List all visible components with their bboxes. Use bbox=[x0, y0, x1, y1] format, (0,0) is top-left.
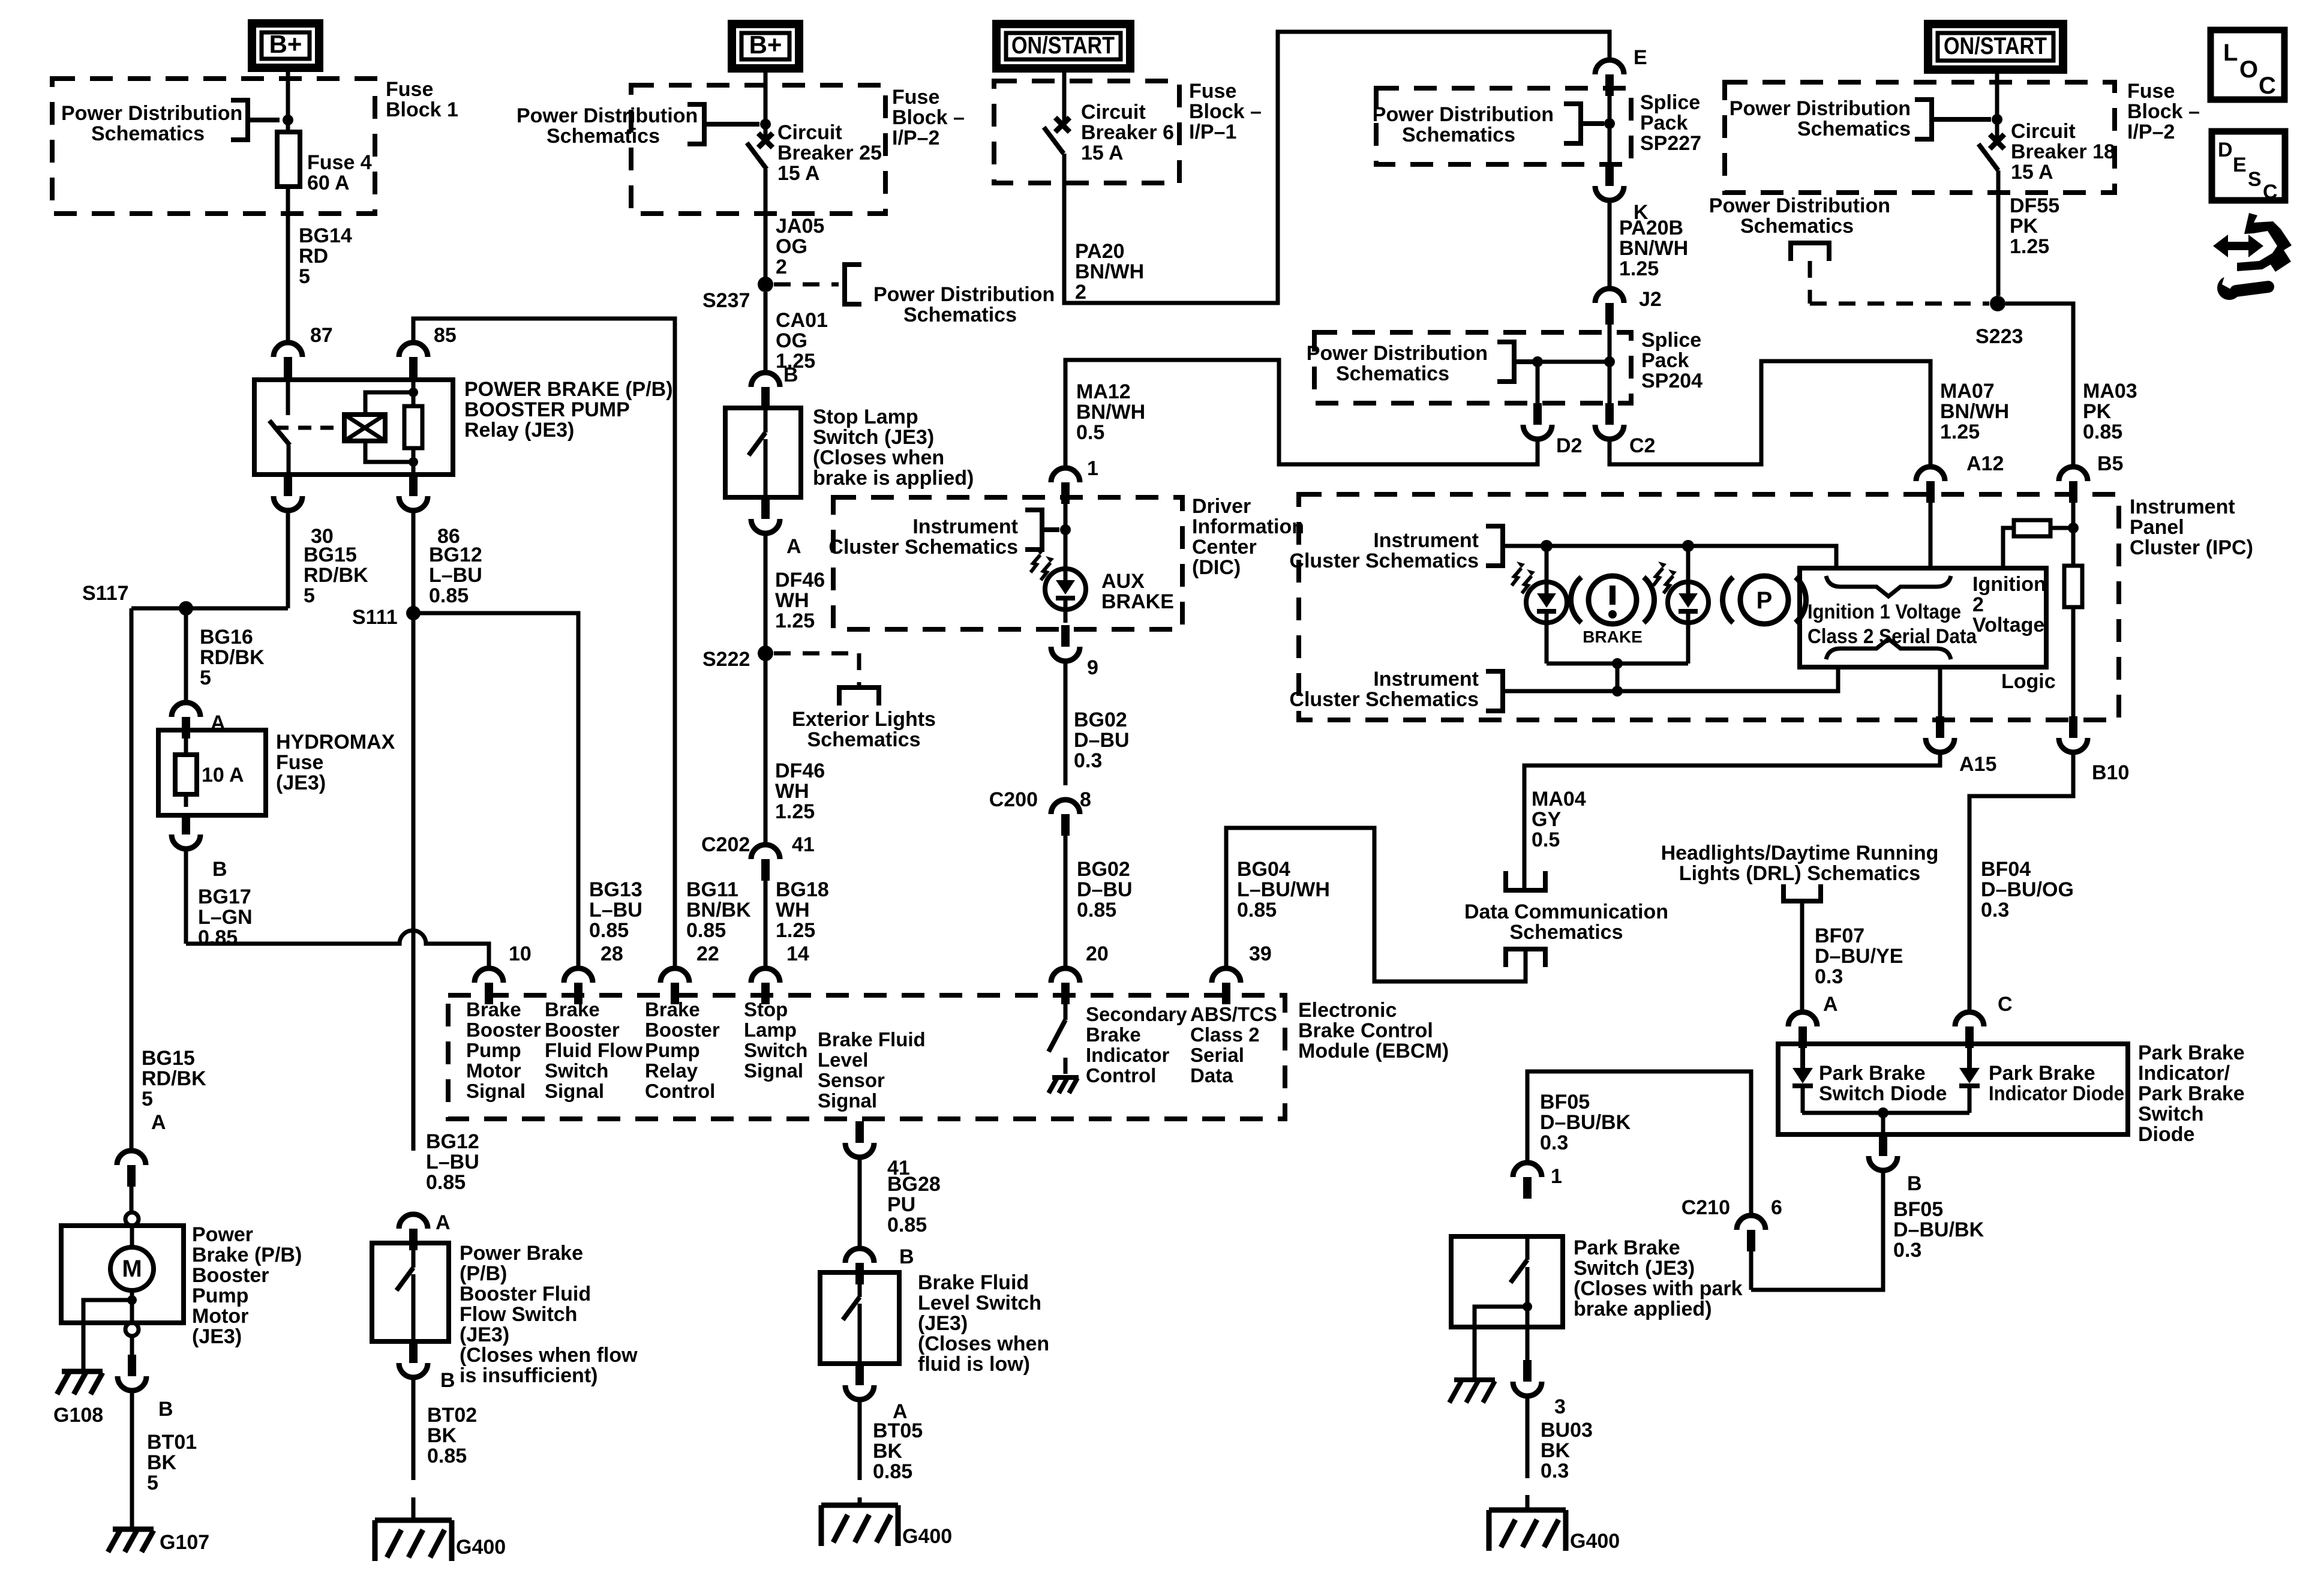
park brake switch internal ground bbox=[1454, 1377, 1495, 1382]
svg-text:BF05: BF05 bbox=[1540, 1091, 1590, 1113]
svg-text:6: 6 bbox=[1771, 1196, 1782, 1219]
svg-text:D2: D2 bbox=[1556, 434, 1582, 457]
wire BG17 to EBCM pin 10 with hop over BG12 bbox=[184, 849, 188, 944]
svg-text:5: 5 bbox=[200, 667, 211, 689]
connector D2 below SP204 bbox=[1523, 425, 1552, 439]
svg-text:0.5: 0.5 bbox=[1532, 828, 1560, 851]
connector pin 22 of EBCM bbox=[660, 968, 689, 983]
relay K1 POWER BRAKE BOOSTER PUMP Relay (JE3) bbox=[254, 380, 453, 475]
svg-text:1.25: 1.25 bbox=[1619, 257, 1659, 280]
wire B of diode box down to C210 junction bbox=[1751, 1170, 1883, 1290]
wire S111 to EBCM pin 28 (BG13) bbox=[413, 613, 578, 968]
svg-text:1.25: 1.25 bbox=[1940, 421, 1980, 443]
wire BG04 from pin 39 to Data Communication Schematics bbox=[1226, 828, 1526, 981]
svg-text:C: C bbox=[1998, 993, 2013, 1016]
svg-text:Brake: Brake bbox=[466, 998, 521, 1020]
svg-text:Motor: Motor bbox=[192, 1305, 248, 1328]
svg-text:Driver: Driver bbox=[1192, 495, 1251, 518]
dashed box Fuse Block 1 bbox=[52, 79, 375, 214]
svg-text:Schematics: Schematics bbox=[1510, 921, 1623, 944]
svg-text:Switch (JE3): Switch (JE3) bbox=[1574, 1257, 1695, 1280]
svg-text:(JE3): (JE3) bbox=[918, 1312, 968, 1335]
svg-text:A: A bbox=[786, 535, 801, 558]
svg-text:(Closes when: (Closes when bbox=[918, 1332, 1049, 1355]
svg-text:Block –: Block – bbox=[892, 106, 965, 129]
svg-text:D–BU: D–BU bbox=[1074, 729, 1130, 752]
svg-text:1.25: 1.25 bbox=[2010, 235, 2049, 258]
svg-text:Fuse 4: Fuse 4 bbox=[307, 151, 372, 174]
svg-text:BK: BK bbox=[147, 1451, 177, 1474]
svg-text:39: 39 bbox=[1249, 942, 1272, 965]
connector K below SP227 bbox=[1595, 186, 1624, 200]
connector pin 30 of relay bbox=[274, 496, 302, 511]
wire DF55 to S223 bbox=[1996, 170, 2001, 296]
svg-text:Motor: Motor bbox=[466, 1059, 521, 1082]
svg-text:5: 5 bbox=[147, 1472, 158, 1494]
connector J2 of splice pack SP204 bbox=[1595, 289, 1624, 303]
wire logic to A15 bbox=[1938, 667, 1942, 718]
svg-text:Pump: Pump bbox=[466, 1039, 521, 1061]
svg-text:Park Brake: Park Brake bbox=[1574, 1236, 1680, 1259]
svg-text:BK: BK bbox=[873, 1440, 903, 1463]
brace class 2 serial data bbox=[1826, 639, 1951, 659]
svg-text:C2: C2 bbox=[1629, 434, 1655, 457]
power symbol ON/START (Fuse Block I/P-2 right) bbox=[1928, 24, 2063, 70]
svg-text:Signal: Signal bbox=[545, 1080, 604, 1102]
wire ON/START to breaker 6 bbox=[1062, 68, 1067, 122]
svg-text:Power Distribution: Power Distribution bbox=[1730, 97, 1911, 120]
svg-text:(Closes when flow: (Closes when flow bbox=[460, 1344, 638, 1367]
svg-text:BN/BK: BN/BK bbox=[686, 899, 751, 921]
svg-text:Fuse: Fuse bbox=[2127, 80, 2175, 103]
svg-text:Switch Diode: Switch Diode bbox=[1819, 1082, 1947, 1105]
switch S2 Stop Lamp Switch (JE3) bbox=[725, 408, 801, 497]
wire BT05 to ground G400 with break bbox=[858, 1400, 862, 1480]
svg-text:G400: G400 bbox=[456, 1536, 506, 1559]
svg-text:Switch (JE3): Switch (JE3) bbox=[813, 426, 934, 449]
svg-text:BT01: BT01 bbox=[147, 1431, 197, 1454]
svg-text:0.3: 0.3 bbox=[1981, 899, 2009, 921]
svg-text:Headlights/Daytime Running: Headlights/Daytime Running bbox=[1661, 842, 1939, 864]
connector pin 41 of EBCM (brake fluid level sensor signal) bbox=[845, 1143, 874, 1157]
svg-text:Cluster (IPC): Cluster (IPC) bbox=[2130, 536, 2253, 559]
diode D2 park brake indicator diode bbox=[1967, 1048, 1972, 1068]
svg-text:B: B bbox=[899, 1245, 914, 1268]
connector B of booster fluid flow switch bbox=[399, 1363, 428, 1377]
svg-text:Brake Control: Brake Control bbox=[1298, 1019, 1433, 1042]
power symbol B+ (Fuse Block I/P-2) bbox=[732, 24, 799, 68]
svg-text:C: C bbox=[2263, 181, 2278, 203]
indicator symbol P (park) bbox=[1740, 576, 1788, 624]
svg-text:ABS/TCS: ABS/TCS bbox=[1190, 1003, 1277, 1025]
svg-text:Fuse: Fuse bbox=[386, 78, 433, 101]
wire D2 to MA12 jog bbox=[1065, 360, 1538, 468]
svg-text:Center: Center bbox=[1192, 536, 1257, 559]
svg-text:JA05: JA05 bbox=[776, 215, 824, 238]
svg-text:Booster: Booster bbox=[545, 1019, 620, 1041]
diode box Park Brake Indicator / Park Brake Switch Diode bbox=[1778, 1044, 2128, 1134]
DIC internal wire to AUX BRAKE LED bbox=[1064, 504, 1068, 569]
svg-text:Control: Control bbox=[645, 1080, 715, 1102]
dashed box Instrument Panel Cluster (IPC) bbox=[1299, 494, 2119, 720]
wire PA20 from CB6 east to splice pack column bbox=[1064, 32, 1610, 303]
svg-text:GY: GY bbox=[1532, 808, 1561, 831]
svg-text:BK: BK bbox=[1541, 1439, 1571, 1462]
splice S117 bbox=[179, 601, 193, 616]
svg-text:Brake (P/B): Brake (P/B) bbox=[192, 1244, 302, 1266]
svg-text:Instrument: Instrument bbox=[1373, 529, 1479, 552]
svg-text:10: 10 bbox=[509, 942, 532, 965]
connector pin 20 of EBCM (secondary brake indicator control) bbox=[1051, 968, 1080, 983]
svg-text:BG02: BG02 bbox=[1074, 709, 1127, 731]
svg-text:(Closes with park: (Closes with park bbox=[1574, 1277, 1743, 1300]
svg-text:L: L bbox=[2223, 40, 2238, 66]
svg-text:Stop Lamp: Stop Lamp bbox=[813, 406, 918, 428]
svg-text:BOOSTER PUMP: BOOSTER PUMP bbox=[464, 398, 630, 421]
svg-text:0.3: 0.3 bbox=[1893, 1239, 1921, 1262]
svg-text:Circuit: Circuit bbox=[1081, 101, 1146, 124]
HYDROMAX Fuse (JE3) box bbox=[158, 730, 266, 815]
svg-text:9: 9 bbox=[1087, 656, 1098, 679]
svg-text:Brake: Brake bbox=[645, 998, 700, 1020]
connector pin 87 of relay bbox=[274, 343, 302, 357]
svg-text:Power Distribution: Power Distribution bbox=[61, 102, 242, 125]
wire S117 down to HYDROMAX fuse bbox=[184, 608, 188, 703]
dashed box Fuse Block I/P-2 (right) bbox=[1725, 82, 2115, 193]
svg-text:Pack: Pack bbox=[1640, 112, 1688, 134]
splice S237 bbox=[758, 277, 773, 292]
svg-text:Park Brake: Park Brake bbox=[2138, 1082, 2245, 1105]
connector B of stop lamp switch bbox=[751, 373, 780, 387]
svg-text:Secondary: Secondary bbox=[1086, 1003, 1187, 1025]
svg-text:DF46: DF46 bbox=[775, 760, 825, 782]
wire BT01 to ground G107 bbox=[130, 1391, 134, 1529]
ground G400 (park brake switch) bbox=[1489, 1508, 1566, 1513]
svg-text:SP227: SP227 bbox=[1640, 132, 1701, 155]
svg-text:Power: Power bbox=[192, 1223, 253, 1246]
svg-text:Schematics: Schematics bbox=[1402, 124, 1515, 146]
connector pin 10 of EBCM bbox=[475, 968, 503, 983]
wire CB25 to S237 bbox=[764, 169, 768, 277]
splice S222 bbox=[758, 646, 773, 661]
svg-text:D–BU/OG: D–BU/OG bbox=[1981, 878, 2074, 901]
connector pin 14 of EBCM bbox=[751, 968, 780, 983]
svg-text:Power Brake: Power Brake bbox=[460, 1242, 583, 1265]
svg-text:Brake Fluid: Brake Fluid bbox=[818, 1028, 926, 1050]
reference Data Communication Schematics bbox=[1506, 949, 1545, 967]
svg-text:brake is applied): brake is applied) bbox=[813, 467, 974, 490]
connector A of stop lamp switch bbox=[751, 519, 780, 533]
svg-text:BN/WH: BN/WH bbox=[1619, 237, 1688, 260]
wire BG28 to level switch bbox=[858, 1157, 862, 1248]
svg-text:22: 22 bbox=[696, 942, 719, 965]
junction on CB18 feed bbox=[1992, 114, 2002, 125]
svg-text:0.85: 0.85 bbox=[427, 1445, 467, 1467]
svg-text:Splice: Splice bbox=[1641, 329, 1701, 352]
svg-text:PA20: PA20 bbox=[1075, 240, 1125, 263]
icon wrench bbox=[2217, 276, 2241, 300]
svg-text:A: A bbox=[1823, 993, 1838, 1016]
svg-text:RD/BK: RD/BK bbox=[200, 646, 265, 669]
svg-text:RD/BK: RD/BK bbox=[142, 1067, 206, 1090]
svg-text:28: 28 bbox=[600, 942, 623, 965]
svg-text:BG12: BG12 bbox=[429, 544, 482, 566]
svg-text:BN/WH: BN/WH bbox=[1076, 401, 1145, 424]
svg-text:Power Distribution: Power Distribution bbox=[1307, 342, 1488, 365]
switch S4 Power Brake Booster Fluid Flow Switch (JE3) bbox=[372, 1243, 449, 1341]
IPC top rail bbox=[1505, 546, 1836, 568]
connector A of HYDROMAX fuse bbox=[172, 703, 200, 717]
svg-text:Power Distribution: Power Distribution bbox=[1709, 194, 1890, 217]
svg-text:Relay: Relay bbox=[645, 1059, 698, 1082]
connector 1 of DIC bbox=[1051, 468, 1080, 482]
svg-text:(JE3): (JE3) bbox=[460, 1323, 509, 1346]
svg-text:A12: A12 bbox=[1966, 452, 2004, 475]
svg-text:Schematics: Schematics bbox=[1336, 362, 1449, 385]
svg-text:Electronic: Electronic bbox=[1298, 999, 1397, 1022]
svg-text:0.3: 0.3 bbox=[1815, 965, 1843, 988]
connector pin 85 of relay bbox=[399, 343, 428, 357]
icon DESC box bbox=[2212, 131, 2285, 200]
svg-text:Flow Switch: Flow Switch bbox=[460, 1303, 577, 1326]
svg-text:1.25: 1.25 bbox=[775, 610, 815, 632]
wire BF05 from park brake switch to C210 bbox=[1527, 1071, 1751, 1215]
svg-text:0.3: 0.3 bbox=[1541, 1460, 1569, 1482]
svg-text:S222: S222 bbox=[702, 648, 750, 671]
svg-text:20: 20 bbox=[1086, 942, 1109, 965]
relay actuation dashed link bbox=[298, 426, 336, 430]
connector B below diode box bbox=[1869, 1156, 1897, 1170]
module EBCM dashed box bbox=[448, 995, 1285, 1119]
svg-text:BF05: BF05 bbox=[1893, 1198, 1943, 1221]
svg-text:BG04: BG04 bbox=[1237, 858, 1290, 881]
connector B5 of IPC bbox=[2059, 467, 2088, 481]
svg-text:Cluster Schematics: Cluster Schematics bbox=[828, 536, 1018, 559]
svg-text:BF04: BF04 bbox=[1981, 858, 2031, 881]
svg-text:Fuse: Fuse bbox=[892, 86, 939, 109]
svg-text:41: 41 bbox=[792, 833, 815, 856]
svg-text:B+: B+ bbox=[269, 30, 302, 58]
svg-text:2: 2 bbox=[1972, 593, 1984, 616]
svg-text:L–GN: L–GN bbox=[198, 906, 253, 929]
svg-text:0.85: 0.85 bbox=[873, 1460, 912, 1483]
svg-text:Brake Fluid: Brake Fluid bbox=[918, 1271, 1029, 1294]
connector B of pump motor bbox=[130, 1336, 134, 1355]
svg-text:Module (EBCM): Module (EBCM) bbox=[1298, 1040, 1449, 1062]
svg-text:Block –: Block – bbox=[2127, 100, 2200, 123]
ground G107 bbox=[113, 1527, 154, 1532]
svg-text:Power Distribution: Power Distribution bbox=[1373, 103, 1554, 126]
svg-text:BG12: BG12 bbox=[426, 1130, 479, 1153]
brace ignition voltage inputs bbox=[1826, 576, 1951, 596]
svg-text:1: 1 bbox=[1087, 457, 1098, 480]
IPC LED bottom rail bbox=[1545, 623, 1549, 664]
svg-text:Power Distribution: Power Distribution bbox=[873, 283, 1055, 306]
svg-text:Signal: Signal bbox=[744, 1059, 803, 1082]
svg-text:0.85: 0.85 bbox=[686, 919, 726, 942]
diode box output junction bbox=[1802, 1111, 1969, 1115]
svg-text:0.85: 0.85 bbox=[429, 584, 469, 607]
svg-text:G400: G400 bbox=[902, 1525, 952, 1548]
svg-text:Breaker 25: Breaker 25 bbox=[777, 142, 882, 164]
svg-text:MA12: MA12 bbox=[1076, 380, 1131, 403]
svg-text:Data Communication: Data Communication bbox=[1464, 900, 1668, 923]
svg-text:S111: S111 bbox=[352, 606, 398, 629]
svg-text:fluid is low): fluid is low) bbox=[918, 1353, 1030, 1376]
svg-text:BG14: BG14 bbox=[299, 224, 352, 247]
svg-text:A: A bbox=[151, 1111, 166, 1134]
svg-text:DF55: DF55 bbox=[2010, 194, 2059, 217]
svg-text:Signal: Signal bbox=[818, 1089, 877, 1112]
svg-text:Level Switch: Level Switch bbox=[918, 1292, 1041, 1314]
svg-text:D–BU: D–BU bbox=[1077, 878, 1133, 901]
svg-text:Brake: Brake bbox=[545, 998, 600, 1020]
svg-text:Information: Information bbox=[1192, 515, 1304, 538]
svg-text:Lamp: Lamp bbox=[744, 1019, 797, 1041]
IPC bottom rail bbox=[1505, 667, 1838, 691]
svg-text:Schematics: Schematics bbox=[903, 304, 1017, 326]
svg-text:Fuse: Fuse bbox=[1189, 80, 1236, 103]
connector 9 below DIC bbox=[1064, 610, 1068, 623]
svg-text:(P/B): (P/B) bbox=[460, 1262, 507, 1285]
icon navigation double arrow bbox=[2213, 235, 2263, 257]
switch S5 Park Brake Switch (JE3) bbox=[1451, 1236, 1563, 1327]
svg-text:G108: G108 bbox=[53, 1404, 103, 1427]
svg-text:BG02: BG02 bbox=[1077, 858, 1130, 881]
EBCM internal driver switch and ground for pin 20 bbox=[1064, 998, 1068, 1020]
svg-text:0.5: 0.5 bbox=[1076, 421, 1104, 444]
svg-text:Pump: Pump bbox=[192, 1284, 248, 1307]
svg-text:14: 14 bbox=[786, 942, 809, 965]
svg-text:M: M bbox=[122, 1256, 142, 1282]
svg-text:BK: BK bbox=[427, 1424, 457, 1447]
svg-text:S223: S223 bbox=[1975, 325, 2023, 348]
svg-text:Fuse: Fuse bbox=[276, 751, 323, 774]
svg-text:B: B bbox=[1907, 1172, 1922, 1195]
svg-text:B+: B+ bbox=[749, 31, 782, 59]
connector A of diode box bbox=[1788, 1012, 1817, 1026]
icon LOC box bbox=[2211, 30, 2284, 100]
svg-text:Level: Level bbox=[818, 1049, 868, 1071]
svg-text:OG: OG bbox=[776, 235, 807, 258]
svg-text:BG18: BG18 bbox=[776, 878, 829, 901]
svg-text:Block 1: Block 1 bbox=[386, 98, 458, 121]
svg-text:PU: PU bbox=[887, 1193, 915, 1216]
svg-text:BG13: BG13 bbox=[589, 878, 642, 901]
wire S223 to IPC B5 (MA03) bbox=[2005, 304, 2073, 468]
svg-text:1: 1 bbox=[1551, 1165, 1562, 1188]
svg-text:HYDROMAX: HYDROMAX bbox=[276, 731, 395, 754]
svg-text:Control: Control bbox=[1086, 1064, 1156, 1086]
svg-text:Instrument: Instrument bbox=[912, 515, 1018, 538]
svg-text:L–BU: L–BU bbox=[429, 564, 482, 587]
svg-text:E: E bbox=[2233, 154, 2247, 176]
svg-text:Booster Fluid: Booster Fluid bbox=[460, 1283, 591, 1305]
dashed box Fuse Block I/P-1 bbox=[994, 81, 1179, 183]
switch S3 Brake Fluid Level Switch (JE3) bbox=[820, 1272, 899, 1364]
svg-text:D–BU/BK: D–BU/BK bbox=[1540, 1111, 1631, 1134]
IPC B5 branch resistor into logic bbox=[2071, 503, 2076, 566]
wire S117 horizontal rail bbox=[131, 607, 288, 611]
wire ON/START to breaker 18 bbox=[1995, 70, 1999, 139]
svg-text:E: E bbox=[1634, 46, 1647, 69]
svg-text:Lights (DRL) Schematics: Lights (DRL) Schematics bbox=[1679, 862, 1920, 885]
svg-text:B5: B5 bbox=[2097, 452, 2123, 475]
indicator symbol BRAKE ((!)) bbox=[1589, 576, 1637, 624]
connector pin 28 of EBCM bbox=[564, 968, 593, 983]
svg-text:Indicator Diode: Indicator Diode bbox=[1989, 1082, 2124, 1105]
svg-text:B: B bbox=[158, 1398, 173, 1421]
svg-text:I/P–2: I/P–2 bbox=[2127, 121, 2175, 143]
connector C of diode box bbox=[1955, 1012, 1984, 1026]
svg-text:CA01: CA01 bbox=[776, 309, 828, 332]
power symbol B+ (battery feed, Fuse Block 1) bbox=[252, 23, 319, 68]
node junction on B+ feed bbox=[283, 115, 293, 125]
relay coil bbox=[344, 415, 385, 441]
power symbol ON/START (Fuse Block I/P-1) bbox=[996, 24, 1130, 68]
svg-text:10 A: 10 A bbox=[202, 764, 244, 786]
svg-text:Circuit: Circuit bbox=[2011, 120, 2076, 143]
SP227 internal wire and junction bbox=[1608, 96, 1612, 164]
dashed reference from S237 to Power Distribution Schematics bbox=[774, 283, 839, 287]
relay coil wiring and resistor bbox=[412, 380, 416, 392]
svg-text:is insufficient): is insufficient) bbox=[460, 1364, 597, 1387]
wire S111 down to flow switch (BG12) bbox=[412, 613, 416, 1151]
svg-text:(DIC): (DIC) bbox=[1192, 556, 1241, 579]
icon part outline arrow bbox=[2237, 213, 2292, 272]
svg-text:3: 3 bbox=[1554, 1395, 1566, 1418]
wire DF46 down to C202 bbox=[764, 533, 768, 845]
wire BT02 to ground G400 with break bbox=[412, 1377, 416, 1480]
svg-text:MA07: MA07 bbox=[1940, 380, 1995, 403]
svg-text:1.25: 1.25 bbox=[776, 919, 815, 942]
svg-text:0.85: 0.85 bbox=[887, 1214, 927, 1236]
svg-text:L–BU/WH: L–BU/WH bbox=[1237, 878, 1330, 901]
svg-text:C202: C202 bbox=[701, 833, 750, 856]
dashed box Driver Information Center (DIC) bbox=[833, 497, 1182, 629]
connector B of brake fluid level switch bbox=[845, 1248, 874, 1263]
svg-text:Schematics: Schematics bbox=[807, 728, 921, 751]
svg-text:BN/WH: BN/WH bbox=[1075, 260, 1144, 283]
connector pin 39 of EBCM (class 2 serial data) bbox=[1212, 968, 1241, 983]
svg-text:Park Brake: Park Brake bbox=[1819, 1062, 1926, 1085]
wire PA20B to J2 bbox=[1608, 200, 1612, 289]
svg-text:15 A: 15 A bbox=[1081, 142, 1124, 164]
svg-text:5: 5 bbox=[142, 1088, 153, 1110]
svg-text:1.25: 1.25 bbox=[775, 800, 815, 823]
wire BU03 to ground G400 with break bbox=[1526, 1396, 1530, 1478]
LED brake warning indicator bbox=[1545, 546, 1549, 582]
svg-text:BT02: BT02 bbox=[427, 1404, 477, 1427]
splice S223 bbox=[1990, 296, 2005, 311]
svg-text:MA04: MA04 bbox=[1532, 788, 1586, 810]
splice S111 bbox=[406, 606, 421, 620]
dashed box Fuse Block I/P-2 bbox=[631, 85, 885, 214]
svg-text:P: P bbox=[1756, 587, 1773, 614]
svg-text:2: 2 bbox=[1075, 281, 1086, 304]
svg-text:Indicator/: Indicator/ bbox=[2138, 1062, 2230, 1085]
svg-text:Instrument: Instrument bbox=[2130, 496, 2235, 518]
svg-text:BN/WH: BN/WH bbox=[1940, 400, 2009, 423]
wire BG18 to EBCM pin 14 bbox=[764, 881, 768, 968]
svg-text:B10: B10 bbox=[2092, 761, 2129, 784]
connector A12 of IPC bbox=[1916, 467, 1945, 481]
svg-text:D–BU/BK: D–BU/BK bbox=[1893, 1218, 1984, 1241]
svg-text:BF07: BF07 bbox=[1815, 924, 1864, 947]
svg-text:0.3: 0.3 bbox=[1074, 749, 1102, 772]
svg-text:S117: S117 bbox=[82, 582, 129, 605]
svg-text:S: S bbox=[2248, 168, 2262, 191]
